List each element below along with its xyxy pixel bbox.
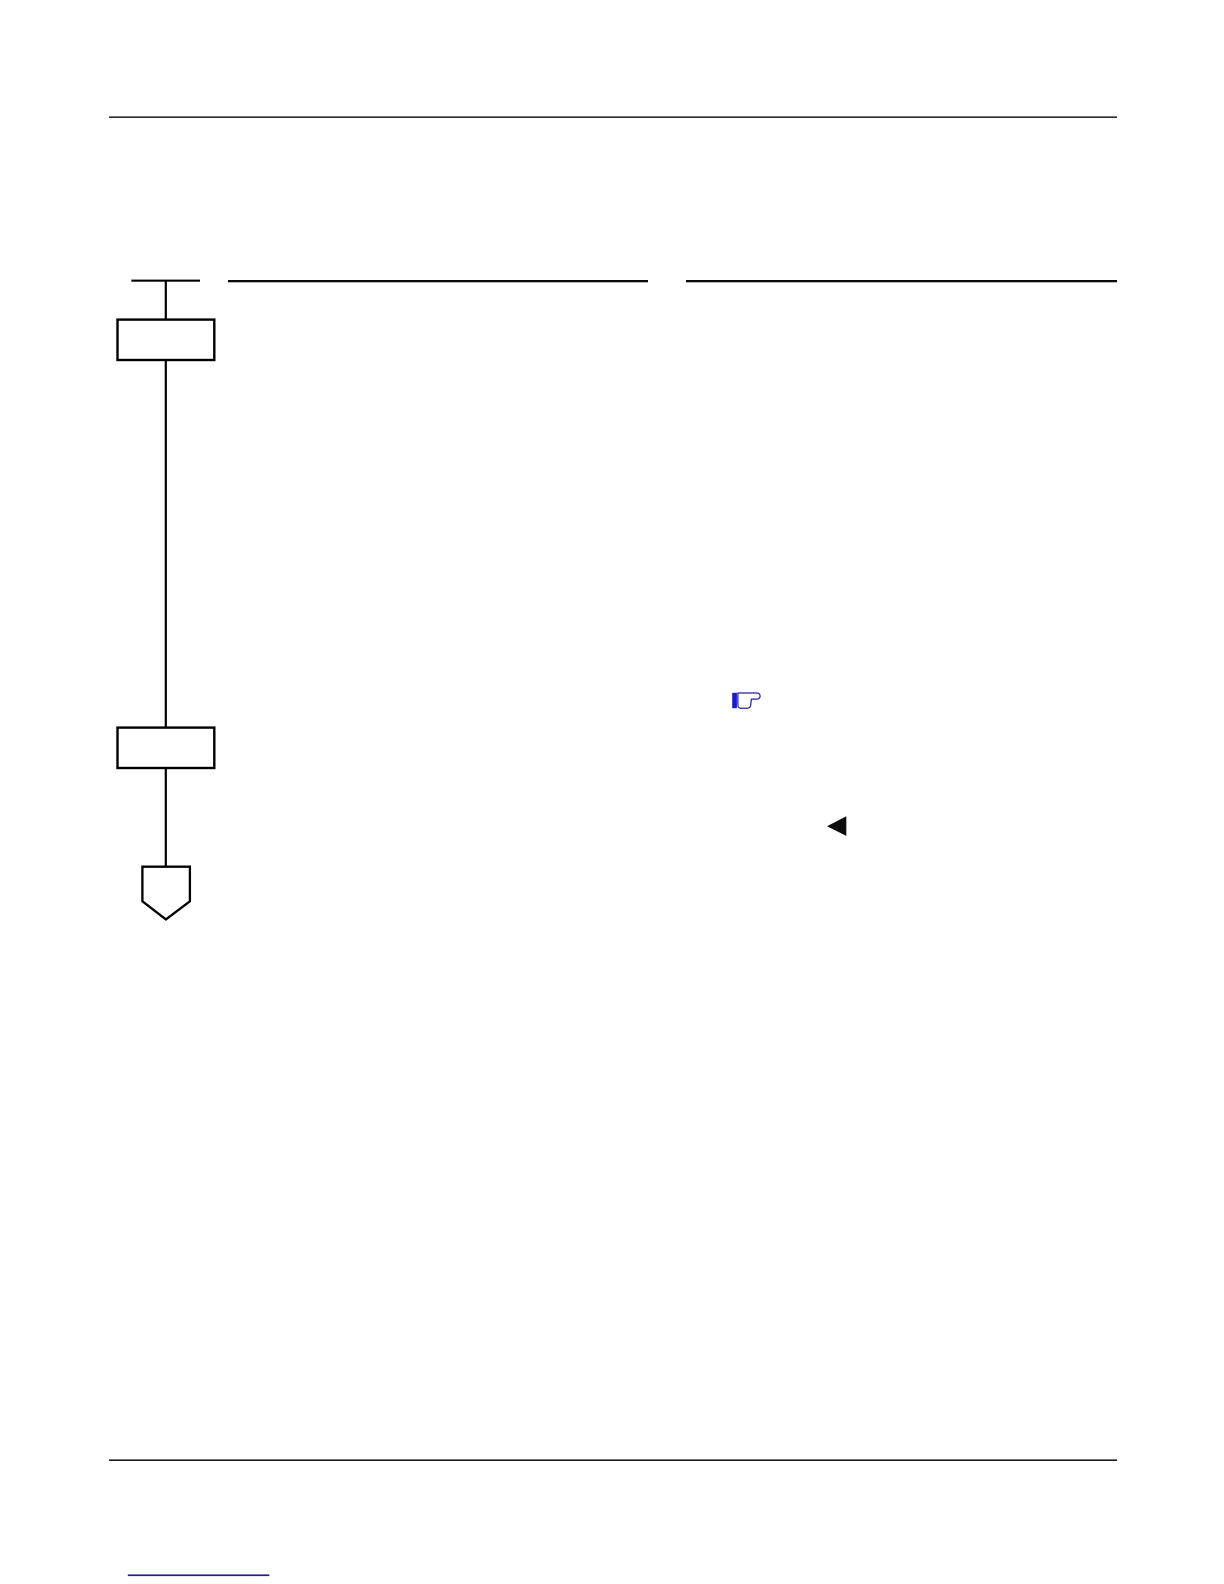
step box 2 [118, 728, 215, 768]
wire from step box 2 to terminator [165, 768, 167, 868]
left-pointing triangle marker [827, 816, 846, 836]
column header underline right [686, 280, 1117, 282]
wire from start tick to step box 1 [165, 280, 167, 320]
pointing hand icon cuff [732, 693, 737, 708]
pointing hand icon outline [738, 693, 760, 708]
terminator pentagon [142, 867, 190, 920]
flowchart start tick [131, 280, 200, 282]
step box 1 [118, 320, 215, 360]
wire from step box 1 to step box 2 [165, 360, 167, 728]
footer rule [109, 1459, 1117, 1461]
footnote separator rule (navy) [128, 1574, 269, 1576]
header rule [109, 116, 1117, 118]
column header underline left [228, 280, 648, 282]
